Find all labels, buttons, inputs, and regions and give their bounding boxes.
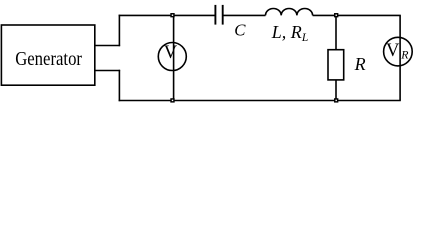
node at top of voltmeter branch [171,14,174,17]
node at top of resistor branch [335,14,338,17]
node at bottom of voltmeter branch [171,99,174,102]
wire: left bus lower segment [118,70,120,101]
resistor R body [328,50,344,80]
generator box [1,25,94,85]
svg-text:R: R [400,47,409,61]
voltmeter U1 circle [158,43,186,71]
wire: left bus upper segment [118,15,120,47]
wire: resistor branch bottom [335,80,337,101]
svg-text:C: C [234,21,246,40]
svg-text:Generator: Generator [15,49,82,70]
wire: top rail left segment [119,14,216,16]
wire: top rail middle segment [223,14,266,16]
capacitor C left plate [214,5,216,25]
wire: right bus through VR meter [399,15,401,100]
inductor L [266,8,313,15]
node at bottom of resistor branch [335,99,338,102]
svg-text:L, RL: L, RL [271,22,308,44]
wire: resistor branch top [335,15,337,49]
wire: top rail right segment [313,14,401,16]
voltmeter U2 circle [384,37,413,66]
wire: bottom rail [119,100,401,102]
wire: generator bottom lead [95,70,120,72]
wire: voltmeter V branch [173,15,175,100]
svg-text:V: V [386,40,400,61]
svg-text:V: V [164,42,178,63]
capacitor C right plate [222,5,224,25]
svg-text:R: R [354,54,366,74]
wire: generator top lead [95,45,120,47]
